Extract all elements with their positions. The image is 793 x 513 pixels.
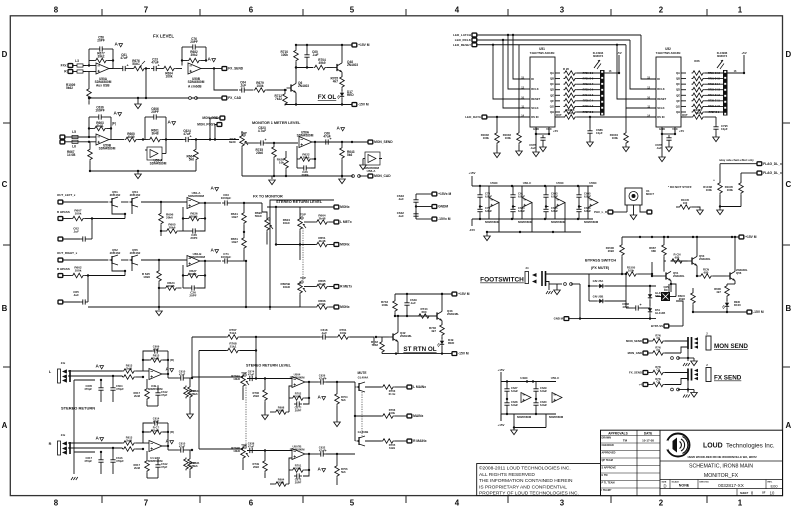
buffer U49C [521,393,531,403]
svg-text:DS IN: DS IN [657,115,664,119]
chassis gnd [683,395,685,398]
wire pot L top [242,388,244,401]
svg-text:+5V: +5V [553,129,558,133]
svg-text:QD: QD [550,88,554,92]
branch wires into U52 [641,35,656,79]
svg-text:2k48: 2k48 [153,428,160,432]
svg-text:470pF: 470pF [116,387,124,391]
feedback box U504 L [289,386,292,398]
svg-text:OUT: OUT [682,113,688,117]
svg-text:L METx: L METx [340,220,352,224]
svg-text:14 0B: 14 0B [67,153,76,157]
svg-text:+15V: +15V [498,368,505,372]
svg-text:RESET: RESET [531,97,540,101]
op-amp U60B [187,256,200,267]
connector FX RETURN - [68,70,73,74]
svg-text:B: B [2,304,8,313]
resistor R600 4k7 [725,285,730,298]
connector spare B [58,300,63,304]
svg-text:QA: QA [676,71,680,75]
svg-text:2N4948L: 2N4948L [400,334,412,338]
svg-text:4k7: 4k7 [431,329,436,333]
svg-text:U59C: U59C [490,181,498,185]
svg-text:DI: DI [531,77,534,81]
svg-text:100k: 100k [75,269,82,273]
svg-text:10-17-08: 10-17-08 [642,439,654,443]
wire bypass column down [625,274,627,301]
svg-text:0032817-XX: 0032817-XX [718,483,744,488]
svg-text:47pF: 47pF [161,393,168,397]
svg-text:R731-D 15: R731-D 15 [708,77,721,80]
wire mute R out [365,440,382,442]
jfet link wires B [112,264,125,271]
wire to C624 [166,139,183,141]
capacitor C686 10pF [589,128,591,131]
svg-text:10kD: 10kD [283,285,291,289]
svg-text:L3: L3 [75,59,79,63]
capacitor C26 20PF [189,287,192,289]
svg-text:D: D [663,483,666,488]
svg-text:20PF: 20PF [189,294,196,298]
capacitor C795 10pF [715,124,717,127]
capacitor C628 6.8uF [506,400,508,403]
svg-text:680: 680 [704,270,709,274]
wire GNDM [416,206,432,208]
svg-text:U60-C: U60-C [523,181,532,185]
svg-text:U58C: U58C [589,181,597,185]
resistor R702 20k6 [292,396,305,401]
resistor R698 20k6 [275,410,288,415]
svg-text:MON_CAD: MON_CAD [374,174,391,178]
svg-text:MON_PRE: MON_PRE [202,116,218,120]
svg-text:CHECKED: CHECKED [602,444,614,447]
gnd footswitch [556,284,558,290]
resistor R1045 100k [740,173,742,182]
svg-text:.1uF: .1uF [240,84,247,88]
LOUD logo mark [667,434,690,457]
svg-text:RCLK: RCLK [531,87,539,91]
connector +15V st rtn [452,292,457,296]
gnd triangle [691,393,698,398]
svg-text:49k9: 49k9 [318,61,325,65]
resistor R679 100k [247,89,253,91]
svg-text:Q56: Q56 [736,271,742,275]
resistor R704c 5k6 [335,393,340,406]
connector B HPASS R [58,274,63,278]
svg-text:13k7: 13k7 [231,215,238,219]
svg-text:DWG NO.: DWG NO. [700,481,710,483]
svg-text:MONITOR_FX: MONITOR_FX [704,473,739,479]
svg-text:R727-D 2: R727-D 2 [583,111,594,114]
svg-text:STEREO RETURN LEVEL: STEREO RETURN LEVEL [276,200,323,204]
feedback resistor R-C? 2k48 [150,430,163,435]
svg-text:2k48: 2k48 [319,217,326,221]
svg-text:GNDM: GNDM [438,205,448,209]
stage2 loop [144,117,146,140]
svg-text:FX SEND: FX SEND [714,375,742,382]
connector MON_SEND [368,140,373,144]
svg-text:R726-C 3: R726-C 3 [583,105,594,108]
svg-text:+5V: +5V [679,129,684,133]
wire OUT U51 to U52 [555,116,565,118]
svg-text:MONITOR 1 METER LEVEL: MONITOR 1 METER LEVEL [252,121,301,125]
decoupling capacitor C605 6.8uF [545,207,547,210]
svg-text:relay side-chain effect only: relay side-chain effect only [719,158,754,162]
svg-text:SDM4580M: SDM4580M [517,415,532,419]
svg-text:R732-E 14: R732-E 14 [708,83,720,86]
IC U51 74HCT595-SO16N [530,57,555,127]
svg-text:QH: QH [676,110,680,114]
gnd [334,422,341,427]
svg-text:680: 680 [422,310,427,314]
svg-text:470pF: 470pF [84,387,92,391]
svg-text:20k6: 20k6 [679,297,686,301]
svg-text:20PF: 20PF [151,110,159,114]
wire to C618 [256,336,320,338]
svg-text:4: 4 [455,499,460,508]
feedback capacitor C609 47pF [152,350,155,352]
svg-text:RED: RED [448,341,454,345]
svg-text:680: 680 [675,255,680,259]
svg-text:-15V M: -15V M [458,352,469,356]
svg-text:TOP: TOP [300,276,306,280]
buffer U50C2 [552,393,562,403]
svg-text:74HCT595-SO16N: 74HCT595-SO16N [530,51,555,55]
capacitor C-- 20PF [301,167,304,169]
connector L MAIN [407,385,412,389]
svg-text:MON_SEND: MON_SEND [374,140,393,144]
svg-text:20PF: 20PF [295,408,302,412]
resistor R706b 5k6 [335,465,340,478]
svg-text:61 9x: 61 9x [389,392,396,396]
resistor R7N [652,339,665,344]
svg-text:QF: QF [550,99,554,103]
svg-text:R724-D 5: R724-D 5 [583,94,594,97]
connector +15V row1 [352,43,357,47]
wire Q51 emitter down [668,284,670,293]
mute jfet Q46 [358,383,360,391]
svg-text:SDM4580M: SDM4580M [584,220,599,224]
decoupling capacitor C605 6.8uF [578,192,580,195]
svg-text:DI: DI [657,77,660,81]
svg-text:+: + [127,63,129,67]
jumpers [671,388,674,391]
gnd pot L [262,415,269,420]
connector -15V row1 [352,103,357,107]
svg-text:10kC: 10kC [283,221,291,225]
svg-text:+4: +4 [639,383,643,387]
svg-text:5k6: 5k6 [193,464,198,468]
ground row3 [158,307,160,310]
decoupling capacitor C606 6.8uF [578,207,580,210]
wire Q51 emitter to relay [670,284,672,292]
capacitor C649 .1uF [406,300,408,303]
resistor R706c 100k [382,414,395,419]
svg-text:20k6: 20k6 [608,249,615,253]
feedback capacitor C614 47pF [152,422,155,424]
wire pot bottom rail [88,306,269,308]
gnd triangle [691,361,698,366]
resistor R7N [652,382,665,387]
svg-text:1: 1 [738,6,743,15]
svg-text:C8: C8 [656,380,660,384]
svg-text:2N4948L: 2N4948L [447,312,459,316]
svg-text:100PF: 100PF [95,109,104,113]
lower rail row1 [89,97,213,99]
svg-text:QC: QC [550,82,554,86]
svg-text:NONE: NONE [679,484,690,488]
svg-text:20k6: 20k6 [169,226,176,230]
svg-text:GND M: GND M [554,317,564,321]
jumpers [671,357,674,360]
array resistor row 4 U51 [564,87,577,92]
svg-text:FLAG_DL_x: FLAG_DL_x [763,171,782,175]
op-amp U1 B48 [149,441,162,452]
op-amp U49-A [149,369,162,380]
svg-text:A: A [786,421,792,430]
chassis gnd footswitch [548,284,550,290]
led D49 RED [440,339,444,347]
svg-text:+15V M: +15V M [358,43,370,47]
svg-text:20PF: 20PF [295,480,302,484]
svg-text:2: 2 [659,6,664,15]
logo white notch [664,441,668,450]
svg-text:D: D [786,50,792,59]
gnd buffers [486,232,488,236]
array resistor row 8 U51 [564,110,577,115]
transistor Q43 2N4948L [436,312,438,319]
svg-text:IS PROPRIETARY AND CONFIDENTIA: IS PROPRIETARY AND CONFIDENTIAL [479,484,567,490]
svg-text:L5: L5 [72,130,76,134]
feedback box U60B [182,265,184,288]
node rail fx ol [296,67,313,69]
svg-text:GL414B: GL414B [655,311,665,315]
svg-text:13k7: 13k7 [231,240,238,244]
svg-text:100: 100 [568,111,573,115]
svg-text:+15Vx M: +15Vx M [438,192,451,196]
connector B HPASS L [58,217,63,221]
array resistor row 3 U52 [692,82,705,87]
svg-text:MAINx: MAINx [413,414,423,418]
ground [341,176,343,178]
svg-text:470pF: 470pF [116,459,124,463]
svg-text:GN U5B: GN U5B [593,295,604,299]
logo box divider [660,460,783,462]
svg-text:20k6: 20k6 [295,394,302,398]
copyright box [477,464,601,496]
svg-text:51k1: 51k1 [230,331,237,335]
chassis gnd [683,363,685,366]
svg-text:5k6: 5k6 [347,153,353,157]
resistor R749 20k6 [263,460,268,473]
svg-text:4k7: 4k7 [716,290,721,294]
feedback box U60A [182,207,184,231]
svg-text:SCLK: SCLK [531,106,538,110]
gnd L channel [187,414,194,419]
svg-text:47uF: 47uF [248,444,255,448]
wire MON out [300,206,334,208]
svg-text:C: C [786,180,792,189]
svg-text:DC: DC [664,288,668,292]
svg-text:20PF: 20PF [190,236,197,240]
jack gnd wires [73,380,75,474]
svg-text:APPROVED: APPROVED [602,452,616,455]
wire base chain [376,336,389,338]
load resistor R R641 [188,458,193,471]
svg-text:R METx: R METx [340,285,352,289]
svg-text:PROPERTY OF LOUD TECHNOLOGIES: PROPERTY OF LOUD TECHNOLOGIES INC. [479,491,579,497]
svg-text:.1uF: .1uF [321,331,327,335]
svg-text:C8: C8 [656,336,660,340]
flag gnd rail [720,206,741,208]
svg-text:FX OL: FX OL [318,94,337,101]
svg-text:SDM4580M: SDM4580M [290,375,306,379]
spare op-amp buffer U59C [489,198,499,208]
svg-text:4k7: 4k7 [333,80,339,84]
capacitor output 47uF [178,449,181,451]
svg-text:OUT_RIGHT_x: OUT_RIGHT_x [57,251,78,255]
svg-text:+15V M: +15V M [745,235,757,239]
svg-text:FX LEVEL: FX LEVEL [153,34,174,39]
svg-text:.1uF: .1uF [73,293,79,297]
svg-text:+: + [265,138,267,142]
wire +15V_M [416,193,432,195]
svg-text:L6: L6 [72,145,76,149]
svg-text:SDM4580M: SDM4580M [297,134,314,138]
array resistor row 7 U52 [692,104,705,109]
svg-text:BYPASS SWITCH: BYPASS SWITCH [585,259,616,263]
svg-text:FLAG_DL_x: FLAG_DL_x [763,162,782,166]
wire input pair [72,65,86,67]
op-amp U59B [96,134,109,145]
svg-text:TM: TM [623,439,628,443]
svg-text:SCLK: SCLK [657,106,664,110]
capacitor C648 47uF [633,307,636,309]
svg-text:SHEET: SHEET [740,492,749,495]
svg-text:-15Vx M: -15Vx M [438,217,451,221]
resistor R70x 20k6 [292,468,305,473]
resistor R1505 100k [625,272,638,277]
jfet link wires [112,206,125,214]
svg-text:100k: 100k [75,212,82,216]
svg-text:U49C: U49C [520,376,528,380]
svg-text:100: 100 [683,201,688,205]
svg-text:QH: QH [550,110,554,114]
resistor R1604 100k [625,108,627,132]
svg-text:(R): (R) [170,358,174,362]
feedback box U50B R [289,458,292,470]
capacitor C604 470pF [112,385,114,388]
capacitor C36 20PF [190,230,193,232]
svg-text:LED_RCLK: LED_RCLK [455,38,472,42]
svg-text:QG: QG [550,104,554,108]
svg-text:SDM4580M: SDM4580M [551,220,566,224]
led D17 RED [340,91,344,99]
gnd under U51 [535,134,537,152]
svg-text:2k48: 2k48 [134,394,141,398]
relay K45 black box [661,292,670,301]
cluster gnd rail [513,414,515,428]
svg-text:QB: QB [550,77,554,81]
resistor R676b 680 [700,274,713,279]
resistor R-LU5 [679,205,692,210]
svg-text:2N5462: 2N5462 [130,193,141,197]
svg-text:SDM4580M: SDM4580M [518,220,533,224]
svg-text:47pF: 47pF [153,419,160,423]
svg-text:100k: 100k [165,75,172,79]
resistor series 2k48 lower [123,375,136,380]
svg-text:B: B [786,304,792,313]
connector FX RETURN + [68,64,73,68]
branch wires into U51 [508,35,525,89]
svg-text:20k6: 20k6 [295,466,302,470]
output pin U52 [681,116,686,118]
capacitor output 47uF [178,377,181,379]
connector +15V bypass [739,235,744,239]
jack MON SEND [687,337,689,349]
svg-text:MONx: MONx [340,205,350,209]
svg-text:504C: 504C [132,62,140,66]
capacitor C624b 47uF [247,378,250,380]
node rail st rtn [395,315,437,317]
svg-text:R MAINx: R MAINx [413,439,427,443]
svg-text:2N4403: 2N4403 [347,63,358,67]
svg-text:QE: QE [550,93,554,97]
array resistor row 1 U52 [692,71,705,76]
svg-text:LED_RESET: LED_RESET [453,43,471,47]
capacitor C629 6.8uF [535,386,537,389]
svg-text:FX_CAD: FX_CAD [228,96,242,100]
op-amp U50A [96,63,109,74]
wire L to mute [354,382,356,387]
+5V stub under U52 [674,129,676,134]
array resistor row 1 U51 [564,71,577,76]
connector MON_POST [215,125,219,140]
svg-text:47uF: 47uF [120,56,127,60]
row2 right gnd rail [242,175,352,177]
svg-text:D: D [2,50,8,59]
connector MON_GND [368,174,373,178]
svg-text:R720-C 9: R720-C 9 [583,72,594,75]
buffer top rail [472,185,593,187]
svg-text:51k1: 51k1 [230,345,237,349]
svg-text:100k: 100k [381,303,388,307]
svg-text:R736-C 10: R736-C 10 [708,105,721,108]
svg-text:R737-D 9: R737-D 9 [709,111,720,114]
capacitor C678 .1uF [662,133,675,135]
array resistor row 5 U51 [564,93,577,98]
jack ground [687,349,689,358]
svg-text:RESET: RESET [657,97,666,101]
svg-text:10pF: 10pF [721,127,728,131]
capacitor C6x 20PF [294,403,297,405]
resistor series 2k48 upper [123,369,136,374]
transistor Q6 2N4403 [290,84,292,91]
svg-text:FXx: FXx [61,64,67,68]
svg-text:100k: 100k [319,302,326,306]
svg-text:20k6: 20k6 [256,151,263,155]
resistor R699 20k6 [275,482,288,487]
svg-text:20PF: 20PF [97,39,105,43]
resistor R1602 100k [496,117,498,132]
wire -15V_M [416,218,432,220]
decoupling capacitor C603 6.8uF [545,192,547,195]
wire q-col [245,261,247,307]
svg-text:DATE: DATE [644,431,652,435]
svg-text:RCLK: RCLK [657,87,665,91]
svg-text:LED_LATCH: LED_LATCH [453,33,471,37]
svg-text:QP TEAM: QP TEAM [602,459,613,462]
